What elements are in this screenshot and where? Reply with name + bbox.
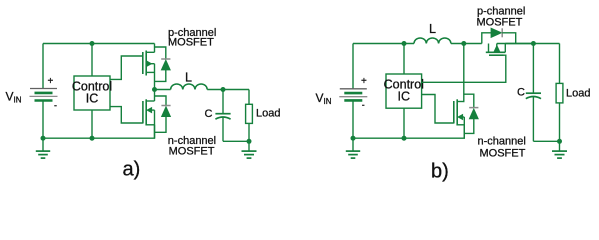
svg-text:a): a) bbox=[123, 158, 141, 180]
svg-text:+: + bbox=[361, 76, 367, 87]
transistor Q1 p-channel MOSFET a bbox=[143, 44, 155, 90]
diode D4 body diode of Q4 bbox=[464, 94, 479, 133]
inductor L1 a bbox=[171, 84, 208, 90]
capacitor C2 b bbox=[526, 44, 541, 142]
svg-text:-: - bbox=[362, 100, 365, 110]
wire top rail a bbox=[43, 43, 155, 45]
svg-text:MOSFET: MOSFET bbox=[168, 36, 214, 48]
transistor Q3 p-channel MOSFET b (horizontal) bbox=[486, 44, 534, 56]
diode D2 body diode of Q2 bbox=[155, 96, 171, 132]
battery V_IN a bbox=[30, 76, 58, 138]
svg-text:MOSFET: MOSFET bbox=[169, 146, 215, 158]
wire ground rail b bbox=[353, 125, 464, 138]
node control top junction b bbox=[402, 41, 407, 46]
transistor Q2 n-channel MOSFET a bbox=[143, 90, 155, 139]
resistor Load b bbox=[556, 44, 563, 142]
node cap junction b bbox=[531, 41, 536, 46]
svg-text:-: - bbox=[54, 101, 57, 111]
wire cap bottom to load bottom b bbox=[533, 140, 559, 142]
capacitor C1 a bbox=[215, 90, 230, 142]
node output ground junction b bbox=[557, 139, 562, 144]
wire left vertical b bbox=[352, 44, 354, 89]
wire n-gate b bbox=[422, 95, 454, 124]
node battery ground junction b bbox=[351, 136, 356, 141]
node control ground junction a bbox=[90, 136, 95, 141]
resistor Load a bbox=[246, 90, 253, 142]
diode D3 body diode of Q3 bbox=[482, 28, 516, 43]
svg-text:VIN: VIN bbox=[316, 91, 332, 106]
control IC U1 box a bbox=[74, 76, 110, 110]
wire top rail b right bbox=[505, 43, 559, 45]
wire n-gate a bbox=[110, 107, 143, 123]
inductor L2 b bbox=[414, 38, 451, 44]
node switch node b bbox=[461, 41, 466, 46]
svg-text:IC: IC bbox=[86, 92, 99, 106]
node battery ground junction a bbox=[41, 136, 46, 141]
transistor Q4 n-channel MOSFET b bbox=[454, 99, 465, 138]
node switch node a bbox=[152, 87, 157, 92]
ground symbol battery a bbox=[36, 138, 50, 158]
svg-text:b): b) bbox=[431, 160, 449, 182]
svg-text:C: C bbox=[205, 108, 213, 120]
svg-text:MOSFET: MOSFET bbox=[477, 16, 523, 28]
node control top junction a bbox=[90, 41, 95, 46]
svg-text:Load: Load bbox=[566, 88, 590, 100]
wire inductor to switch node b bbox=[451, 43, 482, 45]
ground symbol battery b bbox=[346, 138, 360, 158]
svg-text:Load: Load bbox=[256, 108, 280, 120]
control IC box b bbox=[386, 74, 422, 108]
wire top rail b left bbox=[353, 43, 414, 45]
wire cap bottom to load bottom a bbox=[223, 140, 249, 142]
battery V_IN b bbox=[339, 76, 367, 138]
wire control IC bottom b bbox=[403, 108, 405, 138]
wire control IC bottom a bbox=[91, 110, 93, 138]
wire switch node to n-MOSFET drain b bbox=[463, 44, 465, 102]
wire p-gate a bbox=[110, 56, 143, 79]
wire p-gate b bbox=[422, 55, 506, 82]
wire control IC top a bbox=[91, 44, 93, 77]
ground symbol output a bbox=[242, 141, 257, 158]
svg-text:L: L bbox=[429, 22, 436, 36]
svg-text:VIN: VIN bbox=[6, 90, 22, 105]
ground symbol output b bbox=[552, 141, 567, 158]
wire control IC top b bbox=[403, 44, 405, 75]
svg-text:+: + bbox=[48, 76, 54, 87]
wire switch node to inductor a bbox=[155, 89, 171, 91]
node output top junction a bbox=[221, 87, 226, 92]
svg-text:MOSFET: MOSFET bbox=[480, 147, 526, 159]
svg-text:n-channel: n-channel bbox=[478, 136, 526, 148]
wire ground rail a bbox=[43, 125, 155, 138]
diode D1 body diode of Q1 bbox=[155, 47, 171, 81]
svg-text:C: C bbox=[517, 86, 525, 98]
svg-text:L: L bbox=[185, 70, 192, 84]
wire inductor to output a bbox=[207, 89, 249, 91]
node output ground junction a bbox=[247, 139, 252, 144]
wire left vertical a bbox=[42, 44, 44, 89]
svg-text:IC: IC bbox=[398, 90, 411, 104]
node control ground junction b bbox=[402, 136, 407, 141]
